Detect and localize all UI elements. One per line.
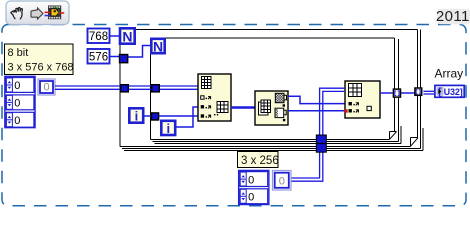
label "8 bit / 3 x 576 x 768"	[5, 44, 74, 75]
version badge 2011	[436, 8, 470, 25]
numeric constant 576	[88, 49, 110, 64]
svg-text:i: i	[135, 109, 139, 124]
auto-index tunnel on inner right border	[393, 89, 400, 97]
svg-text:0: 0	[248, 174, 254, 186]
snippet dashed border	[2, 25, 466, 206]
node 3	[345, 81, 380, 118]
auto-index tunnel on outer right border	[415, 88, 422, 95]
wire node1 to node2 (1D array thick)	[231, 106, 255, 109]
wire 768 to outer N	[109, 35, 119, 37]
svg-text:0: 0	[248, 192, 254, 204]
2D array element display (gray 0)	[273, 171, 292, 191]
wire outer i to node1 row3	[145, 115, 199, 117]
2D array constant (bottom) index displays	[239, 170, 269, 204]
wire inner i to node1 row2	[176, 107, 198, 127]
wire node2 top out to node3 row2	[288, 96, 345, 103]
Array indicator label	[435, 67, 464, 81]
svg-text:0: 0	[43, 82, 49, 94]
svg-text:U32]: U32]	[444, 87, 463, 97]
svg-text:i: i	[166, 121, 170, 136]
inner for loop	[151, 38, 402, 144]
3D array wire (double line)	[55, 86, 198, 89]
red coercion dot on node3 row3	[344, 109, 347, 112]
stacked tunnels on loop bottom borders	[316, 135, 326, 152]
svg-text:Array: Array	[435, 67, 464, 81]
Array indicator terminal [U32]	[435, 85, 464, 98]
svg-text:N: N	[122, 28, 132, 44]
toolbar tab	[6, 1, 69, 25]
svg-text:0: 0	[14, 98, 20, 110]
svg-text:2011: 2011	[436, 8, 470, 25]
node 2	[255, 91, 288, 125]
svg-text:8 bit: 8 bit	[8, 47, 29, 59]
arrow tool icon	[31, 8, 43, 19]
label "3 x 256"	[238, 152, 279, 168]
svg-text:768: 768	[89, 31, 108, 43]
svg-text:0: 0	[14, 115, 20, 127]
inner loop N terminal	[151, 38, 164, 54]
wire node2 bottom out to node3 row3	[288, 110, 345, 112]
outer loop N terminal	[120, 28, 135, 44]
tunnel outer i on inner border	[152, 113, 159, 120]
outer loop i terminal	[129, 108, 143, 123]
svg-text:N: N	[153, 38, 163, 54]
wire node3 out to tunnels	[380, 92, 415, 94]
svg-text:0: 0	[14, 80, 20, 92]
2D array wire vertical (from bottom constant to node3)	[291, 88, 345, 181]
LabVIEW snippet film icon	[45, 6, 65, 20]
svg-text:3 x 576 x 768: 3 x 576 x 768	[8, 62, 74, 74]
outer for loop	[120, 30, 423, 151]
Index Array node 1	[198, 74, 231, 121]
inner loop i terminal	[161, 121, 175, 136]
tunnel 3D wire on inner border	[152, 85, 160, 92]
wire 576 to tunnel and inner N	[109, 46, 151, 58]
hand tool icon	[11, 7, 23, 18]
numeric constant 768	[88, 29, 110, 44]
svg-text:0: 0	[279, 176, 285, 188]
3D array element display (gray 0)	[38, 79, 55, 95]
svg-text:3 x 256: 3 x 256	[241, 155, 279, 167]
tunnel 576 on outer border	[120, 55, 128, 63]
tunnel 3D wire on outer border	[121, 85, 129, 92]
wire tunnel to indicator (double)	[423, 91, 434, 94]
3D array constant (left) index displays	[5, 76, 35, 127]
svg-text:576: 576	[89, 52, 108, 64]
